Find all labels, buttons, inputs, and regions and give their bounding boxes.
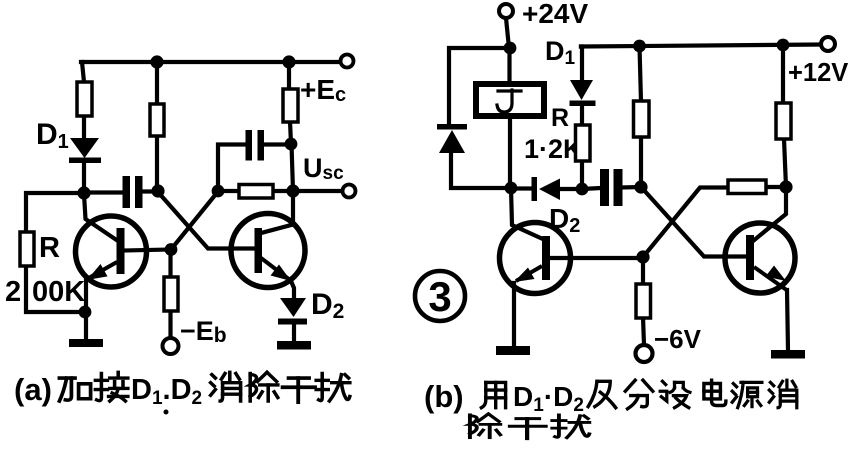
wire Q3 emitter lead — [512, 283, 516, 346]
svg-text:00K: 00K — [32, 276, 85, 308]
node dot top rail right — [282, 55, 295, 68]
diode D1 cathode bar — [69, 158, 101, 164]
wire relay top — [507, 48, 511, 80]
svg-text:D1.D2: D1.D2 — [131, 374, 202, 409]
wire rail node down through resistor — [781, 45, 785, 104]
wire node E to Usc terminal — [293, 189, 342, 193]
diode D2b triangle — [539, 179, 560, 201]
terminal +Ec — [341, 55, 354, 68]
freewheel diode cathode bar — [437, 124, 467, 130]
svg-text:−6V: −6V — [654, 324, 702, 354]
relay J box — [476, 84, 544, 116]
wire Q4 emitter lead — [787, 290, 788, 350]
caption (b) hanzi dian — [704, 380, 726, 405]
freewheel diode triangle — [439, 130, 465, 153]
caption (a) hanzi xiao — [211, 372, 241, 401]
capacitor Cb plate right — [614, 169, 623, 206]
wire horizontal resistor to node E — [272, 189, 293, 193]
wire Q2 emitter to D2 — [291, 280, 295, 299]
node dot Q4 collector — [779, 180, 792, 193]
diode D1 triangle — [70, 138, 99, 158]
wire Q1 emitter lead — [84, 281, 88, 312]
wire node A to C1 left plate — [84, 190, 123, 194]
wire R 1.2K to D1b — [580, 104, 584, 126]
caption (b) hanzi yong — [481, 382, 505, 407]
transistor Q1 base bar — [117, 228, 125, 274]
transistor Q2 circle — [231, 214, 305, 288]
figure number 3 circle — [415, 271, 465, 321]
wire node C diagonal to node D — [171, 192, 218, 250]
wire resistor R1 to diode D1 — [82, 116, 86, 139]
wire node D down to resistor — [168, 250, 172, 279]
wire C1 right plate to node B — [142, 189, 157, 193]
node B junction dot — [151, 184, 164, 197]
wire relay bottom — [508, 118, 512, 188]
wire node to left corner — [449, 48, 510, 125]
caption (a) hanzi jia — [59, 378, 90, 401]
svg-text:D1·D2: D1·D2 — [513, 381, 584, 416]
caption (b) line2 hanzi chu — [470, 414, 500, 438]
terminal Usc — [343, 185, 356, 198]
wire node to node E — [292, 144, 294, 191]
node D junction dot — [165, 243, 178, 256]
svg-text:R: R — [551, 104, 569, 132]
transistor Q4 circle — [725, 223, 795, 293]
svg-text:(a): (a) — [14, 372, 52, 407]
wire node up to R 1.2K — [580, 160, 584, 189]
resistor R2 (middle branch) — [150, 104, 164, 136]
caption (a) hanzi gan — [283, 378, 315, 402]
resistor R1 (left branch) — [77, 82, 92, 116]
caption (a) hanzi chu — [250, 372, 278, 401]
wire D2 cathode to ground — [292, 324, 296, 342]
transistor Q2 emitter arrow — [261, 258, 290, 280]
caption (b) hanzi she — [660, 381, 690, 407]
wire R 200K bottom to emitter node — [26, 265, 85, 312]
resistor R 1.2K — [576, 125, 591, 161]
capacitor C1 plate left — [123, 176, 131, 208]
wire D1b to rail corner — [581, 47, 582, 82]
resistor right branch — [776, 103, 791, 139]
transistor Q2 base bar — [255, 228, 263, 273]
wire Q4 collector — [753, 187, 786, 241]
wire top rail right circuit — [581, 45, 821, 47]
wire resistor R3 to node — [290, 121, 291, 144]
svg-text:(b): (b) — [424, 379, 464, 414]
capacitor C1 plate right — [135, 176, 143, 208]
wire resistor to Q4 collector node — [784, 139, 786, 187]
wire +24V terminal to node — [506, 18, 509, 48]
wire rail node down to resistor — [640, 46, 642, 102]
diode D1b triangle — [570, 80, 593, 100]
stray dot speck — [164, 410, 169, 415]
node dot Q3 base — [636, 250, 649, 263]
capacitor C2 plate right — [258, 130, 265, 161]
transistor Q4 base bar — [746, 235, 754, 280]
wire node diagonal to Q4 base — [642, 188, 748, 257]
capacitor C2 plate left — [246, 130, 253, 161]
terminal -6V — [636, 345, 653, 362]
wire right branch top — [287, 62, 291, 90]
caption (b) line2 hanzi gan — [510, 419, 546, 439]
wire D2b to node — [559, 187, 582, 191]
wire middle branch bottom to node B — [155, 135, 159, 191]
resistor R3 (right branch) — [283, 89, 298, 122]
resistor R5 horizontal coupling — [239, 185, 273, 199]
transistor Q1 emitter arrow — [87, 262, 117, 279]
node C junction dot — [212, 185, 225, 198]
terminal -Eb — [163, 338, 179, 354]
resistor -6V branch — [636, 284, 651, 318]
svg-text:3: 3 — [428, 273, 451, 320]
wire -6V resistor to terminal — [643, 317, 644, 345]
wire top rail left circuit — [81, 60, 341, 64]
diode D2 cathode bar — [278, 319, 307, 325]
wire D1 cathode to node A — [82, 162, 86, 193]
wire Q3 collector — [511, 188, 545, 240]
wire Q1 collector — [84, 194, 118, 241]
caption (a) hanzi rao — [316, 373, 350, 401]
node dot rail right — [777, 39, 790, 52]
wire Q2 collector — [261, 191, 293, 233]
node dot rail middle — [633, 40, 646, 53]
terminal +24V — [499, 4, 513, 18]
caption (b) hanzi yuan — [732, 382, 762, 407]
wire node down to -6V resistor — [641, 257, 645, 285]
node dot D2b right — [576, 183, 589, 196]
node E junction dot — [286, 184, 299, 197]
wire resistor to -Eb terminal — [168, 310, 172, 338]
relay J letter — [497, 90, 521, 112]
node dot capacitor right — [634, 180, 647, 193]
wire node to D2b anode — [511, 186, 533, 190]
transistor Q3 emitter arrow — [516, 266, 542, 281]
caption (a) hanzi jie — [95, 372, 127, 401]
wire middle branch top — [155, 62, 159, 105]
wire resistor to node — [639, 136, 643, 187]
svg-text:+12V: +12V — [788, 59, 848, 87]
wire C2 right plate to node — [264, 142, 292, 146]
wire emitter node to ground — [84, 312, 88, 340]
capacitor Cb plate left — [600, 169, 609, 206]
transistor Q3 base bar — [542, 236, 550, 280]
wire node C to horizontal resistor — [218, 189, 239, 193]
ground under Q3 — [496, 346, 530, 355]
transistor Q1 circle — [76, 216, 147, 287]
resistor middle right circuit — [634, 101, 650, 137]
diode D2b cathode bar — [532, 177, 538, 201]
node A junction dot — [77, 186, 90, 199]
wire capacitor right plate to node — [622, 185, 641, 190]
wire freewheel diode to bottom corner — [451, 152, 511, 188]
node dot bottom left — [505, 182, 518, 195]
svg-text:R: R — [39, 232, 60, 264]
diode D2 triangle — [280, 298, 306, 317]
resistor R4 (-Eb branch) — [164, 277, 178, 311]
caption (b) hanzi ji — [588, 381, 616, 407]
wire node B diagonal to Q2 base — [158, 192, 256, 249]
terminal +12V — [821, 37, 835, 51]
node dot top rail middle — [150, 55, 163, 68]
transistor Q4 emitter arrow — [754, 267, 788, 291]
node emitter junction dot — [79, 306, 92, 319]
svg-text:2: 2 — [5, 276, 21, 308]
ground under Q4 — [771, 350, 805, 359]
caption (b) hanzi fen — [625, 380, 653, 409]
wire Q3 base to node — [550, 256, 643, 260]
resistor coupling right — [728, 180, 766, 194]
wire coupling resistor to Q4 collector node — [766, 185, 786, 189]
ground under D2 — [277, 341, 311, 350]
resistor R 200K — [20, 232, 34, 266]
wire node A left to R 200K — [26, 193, 84, 233]
caption (b) line2 hanzi rao — [552, 415, 589, 438]
diode D1b cathode bar — [570, 101, 596, 107]
wire node to capacitor left plate — [582, 188, 601, 189]
svg-text:+24V: +24V — [522, 0, 588, 29]
wire node C up and to C2 left plate — [218, 145, 246, 192]
node dot top right circuit — [504, 42, 517, 55]
wire node diagonal to coupling resistor — [643, 188, 729, 258]
caption (b) hanzi xiao2 — [769, 380, 797, 408]
transistor Q3 circle — [500, 223, 571, 294]
wire Q1 base to node D — [124, 250, 171, 251]
node dot C2 right — [285, 138, 298, 151]
wire left branch top — [82, 62, 84, 82]
ground under Q1 — [69, 339, 103, 347]
